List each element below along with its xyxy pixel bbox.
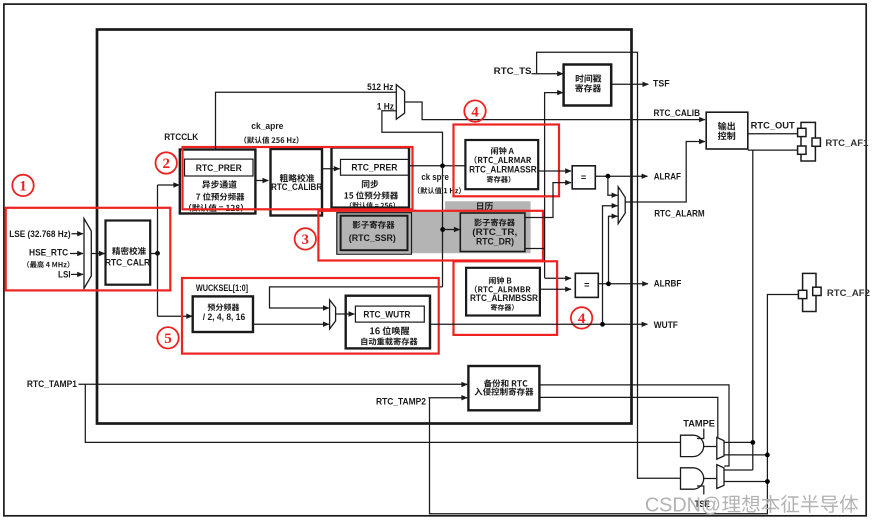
svg-text:1: 1 (19, 179, 27, 195)
wire ALRAF to alarm mux (608, 176, 618, 195)
tamper edge mux 1 (717, 437, 724, 459)
async prescaler RTC_PRER register (185, 159, 254, 176)
wire tamper mux2 return (724, 469, 753, 471)
clock source mux (84, 219, 91, 289)
wire alarm A to comparator (538, 170, 571, 172)
svg-text:ck spre: ck spre (421, 172, 449, 182)
wire to shadow registers (443, 229, 460, 231)
annotation circle 5 (157, 327, 178, 348)
pin RTC_AF2 pad left (798, 290, 806, 298)
wakeup prescaler box (193, 296, 253, 332)
wire LSE to mux (72, 233, 83, 235)
svg-text:RTC_TAMP2: RTC_TAMP2 (376, 396, 426, 406)
pin RTC_AF2 body (803, 273, 816, 311)
wire WUTF output (430, 323, 647, 325)
wire TAMPE stub (697, 429, 704, 439)
timestamp register box (564, 65, 612, 106)
wire RTCCLK vertical (157, 185, 159, 316)
svg-text:RTC_PRER: RTC_PRER (351, 163, 397, 173)
wire RTC_CALR output RTCCLK (150, 253, 157, 255)
alarm B registers box (466, 268, 540, 316)
svg-text:RTC_AF2: RTC_AF2 (827, 288, 870, 298)
wire RTC_OUT to RTC_AF1 (748, 133, 798, 135)
wire output control to RTC_AF1 pin (748, 149, 798, 151)
wire to tamper mux area (752, 150, 754, 470)
svg-text:/ 2, 4, 8, 16: / 2, 4, 8, 16 (203, 312, 245, 322)
wire RTC_TAMP2 to AF2 path (430, 295, 799, 514)
async 7-bit prescaler box (180, 150, 256, 214)
svg-text:HSE_RTC: HSE_RTC (29, 248, 68, 258)
svg-text:RTC_WUTR: RTC_WUTR (363, 309, 410, 319)
sync prescaler RTC_PRER register (341, 159, 409, 175)
coarse calibration RTC_CALIBR box (271, 149, 323, 216)
svg-text:RTC_OUT: RTC_OUT (751, 121, 795, 131)
wire RTC_CALIB (405, 102, 705, 120)
wire ALRAF output (595, 175, 647, 177)
wire RTC_TS to timestamp register (532, 73, 564, 75)
wire async prescaler to coarse calibration (255, 180, 268, 182)
svg-text:=: = (581, 173, 586, 183)
svg-text:RTC_ALRMASSR: RTC_ALRMASSR (469, 164, 537, 174)
node WUTF branch (600, 322, 605, 327)
wire HSE_RTC to mux (70, 253, 83, 255)
backup and tamper control registers box (468, 366, 539, 410)
svg-text:4: 4 (471, 104, 479, 120)
wire RTC_TAMP1 to backup registers (79, 383, 468, 385)
wire gate1 to mux1 (704, 446, 717, 448)
svg-text:LSE (32.768 Hz): LSE (32.768 Hz) (9, 229, 70, 239)
wire RTC_TS to tamper gate (537, 52, 680, 478)
smooth calibration RTC_CALR box (106, 221, 151, 285)
alarm output mux (618, 187, 625, 224)
node AF2 route B (765, 479, 770, 484)
svg-text:WUCKSEL[1:0]: WUCKSEL[1:0] (196, 283, 248, 293)
timestamp AND gate (681, 468, 704, 489)
pin RTC_AF1 body (801, 122, 815, 161)
wire ck_spre to wakeup mux (270, 287, 443, 308)
svg-text:=: = (584, 280, 589, 290)
svg-text:RTC_ALARM: RTC_ALARM (654, 208, 705, 218)
node AF2 route A (765, 453, 770, 458)
alarm A registers box (465, 140, 538, 189)
wire tamper mux2 out (724, 481, 767, 483)
svg-text:RTC_CALR: RTC_CALR (105, 258, 150, 268)
RTC_WUTR register (355, 306, 424, 322)
pin RTC_AF1 pad right (812, 138, 820, 146)
wakeup clock mux (330, 300, 336, 329)
node calendar input (440, 227, 445, 232)
svg-text:ALRAF: ALRAF (654, 172, 682, 182)
wire prescaler to wakeup mux (253, 323, 329, 325)
calibration output mux (396, 85, 404, 120)
annotation circle 4 (464, 100, 485, 121)
annotation circle 4b (571, 307, 592, 328)
wakeup timer box (346, 296, 430, 349)
annotation box 2 (183, 147, 413, 209)
wire ALRBF output (598, 283, 648, 285)
svg-text:(RTC_SSR): (RTC_SSR) (349, 233, 396, 243)
shadow register RTC_SSR box (341, 216, 408, 251)
annotation box 5 (182, 278, 439, 354)
svg-text:WUTF: WUTF (654, 320, 678, 330)
wire ck_apre 512Hz tap (216, 92, 396, 149)
svg-text:RTC_AF1: RTC_AF1 (825, 138, 868, 148)
RTC main block boundary (97, 30, 632, 424)
svg-text:LSI: LSI (58, 269, 71, 279)
svg-text:3: 3 (302, 232, 310, 248)
wire ck_spre from sync prescaler (409, 165, 465, 167)
tamper AND gate (681, 435, 704, 456)
svg-text:RTCCLK: RTCCLK (164, 132, 198, 142)
svg-text:RTC_PRER: RTC_PRER (196, 163, 242, 173)
svg-text:TSF: TSF (653, 79, 670, 89)
timestamp edge mux 2 (717, 465, 724, 489)
wire RTC_ALARM to output control (625, 142, 705, 203)
comparator B (575, 273, 598, 297)
node AF1 route (750, 440, 755, 445)
svg-text:TAMPE: TAMPE (683, 419, 715, 429)
wire gate2 to mux2 (704, 478, 717, 480)
annotation circle 2 (156, 152, 177, 173)
wire coarse calibration to sync prescaler (322, 168, 340, 170)
svg-text:ALRBF: ALRBF (654, 279, 682, 289)
calendar label 日历 (477, 202, 493, 210)
wire RTCCLK to wakeup prescaler (158, 315, 193, 317)
node RTCCLK junction (155, 251, 160, 256)
calendar gray region (337, 211, 531, 253)
svg-text:RTC_CALIBR: RTC_CALIBR (271, 182, 322, 192)
shadow register RTC_SSR outer box (337, 213, 412, 255)
wire 1Hz from ck_spre (382, 111, 443, 166)
calendar title bar (445, 201, 530, 211)
wire ck_spre trunk down (442, 166, 444, 287)
annotation box 4 alarm B (454, 261, 558, 335)
svg-text:ck_apre: ck_apre (251, 121, 283, 131)
svg-text:5: 5 (164, 331, 172, 347)
wire WUTF to alarm mux (603, 206, 618, 325)
wire alarm B to comparator (540, 288, 571, 290)
pin RTC_AF1 pad bottom-left (798, 146, 806, 154)
svg-text:1 Hz: 1 Hz (377, 101, 394, 111)
svg-text:512 Hz: 512 Hz (367, 82, 394, 92)
shadow registers RTC_TR RTC_DR box (460, 213, 525, 252)
sync 15-bit prescaler box (332, 148, 410, 208)
annotation circle 1 (12, 175, 33, 196)
annotation box 4 alarm A (454, 125, 560, 197)
wire LSI to mux (71, 273, 83, 275)
pin RTC_AF2 pad right (813, 287, 821, 295)
wire calendar to timestamp register (545, 93, 563, 278)
pin RTC_AF1 pad top-left (798, 128, 806, 136)
wire tamper mux1 out A (724, 441, 753, 443)
annotation box 3 (318, 211, 543, 261)
wire RTC_TAMP1 to tamper gate (85, 384, 680, 442)
wire calendar to comparator A (525, 183, 571, 218)
svg-text:RTC_CALIB: RTC_CALIB (654, 108, 701, 118)
wire calendar to comparator B (525, 248, 545, 250)
output control box (706, 112, 748, 149)
annotation box 1 (6, 208, 171, 291)
annotation circle 3 (295, 228, 316, 249)
wire backup registers to tamper mux 2 (539, 385, 729, 466)
svg-text:2: 2 (162, 156, 170, 172)
wire wakeup mux to RTC_WUTR (336, 313, 355, 315)
wire tamper mux1 out B (724, 454, 767, 456)
svg-text:RTC_TAMP1: RTC_TAMP1 (27, 379, 77, 389)
node ck_spre (440, 163, 445, 168)
wire backup registers to tamper mux 1 (539, 397, 717, 437)
svg-text:CSDN@: CSDN@ (645, 494, 721, 516)
node ALRAF branch (606, 174, 611, 179)
wire TSF output (611, 83, 648, 85)
svg-text:RTC_TS: RTC_TS (494, 66, 532, 76)
node ALRBF branch (606, 281, 611, 286)
wire RTCCLK to async prescaler (158, 184, 180, 186)
svg-text:RTC_ALRMBSSR: RTC_ALRMBSSR (470, 293, 538, 303)
svg-text:RTC_DR): RTC_DR) (476, 236, 514, 246)
wire RTC_TAMP2 to backup registers (429, 397, 468, 399)
comparator A (572, 166, 595, 189)
wire mux to RTC_CALR (91, 253, 104, 255)
wire TSE stub (697, 486, 704, 495)
wire ALRBF to alarm mux (609, 216, 618, 284)
